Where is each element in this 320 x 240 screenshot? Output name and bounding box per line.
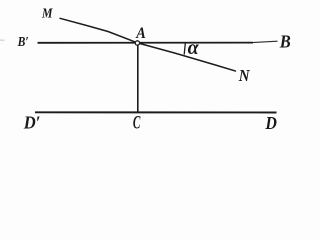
node A open circle	[135, 41, 139, 45]
faint scan smudge at left edge	[0, 39, 5, 41]
wire line D'D (lower horizontal)	[35, 111, 277, 113]
svg-text:A: A	[135, 25, 146, 42]
wire line B'B (upper horizontal)	[38, 42, 254, 44]
svg-text:D′: D′	[23, 113, 41, 133]
svg-text:M: M	[41, 7, 53, 22]
svg-text:B′: B′	[17, 35, 29, 50]
svg-text:α: α	[188, 37, 200, 59]
wire line B'B thin right tail	[253, 41, 278, 42]
svg-text:C: C	[133, 113, 141, 134]
svg-text:D: D	[265, 113, 277, 133]
svg-text:N: N	[238, 66, 250, 85]
wire line AC (vertical)	[137, 45, 139, 112]
wire line MN (transversal through A)	[60, 18, 237, 71]
svg-text:B: B	[279, 31, 291, 51]
angle alpha tick mark	[184, 43, 185, 54]
